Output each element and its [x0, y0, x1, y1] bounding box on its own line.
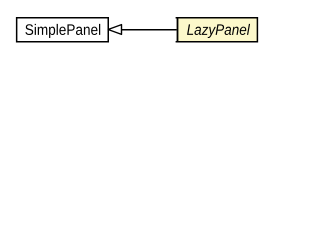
- hollow triangle arrowhead pointing at SimplePanel: [108, 25, 121, 35]
- label SimplePanel: [25, 24, 100, 38]
- class box LazyPanel top border: [176, 17, 258, 19]
- class box LazyPanel left border: [177, 17, 179, 43]
- background: [0, 0, 273, 59]
- class box LazyPanel right border: [256, 17, 258, 43]
- class box SimplePanel: [17, 18, 109, 42]
- class box LazyPanel fill (highlighted): [177, 17, 258, 42]
- class box LazyPanel bottom border: [176, 41, 258, 43]
- wire shaft of inheritance arrow: [121, 29, 177, 31]
- label LazyPanel: [187, 24, 250, 38]
